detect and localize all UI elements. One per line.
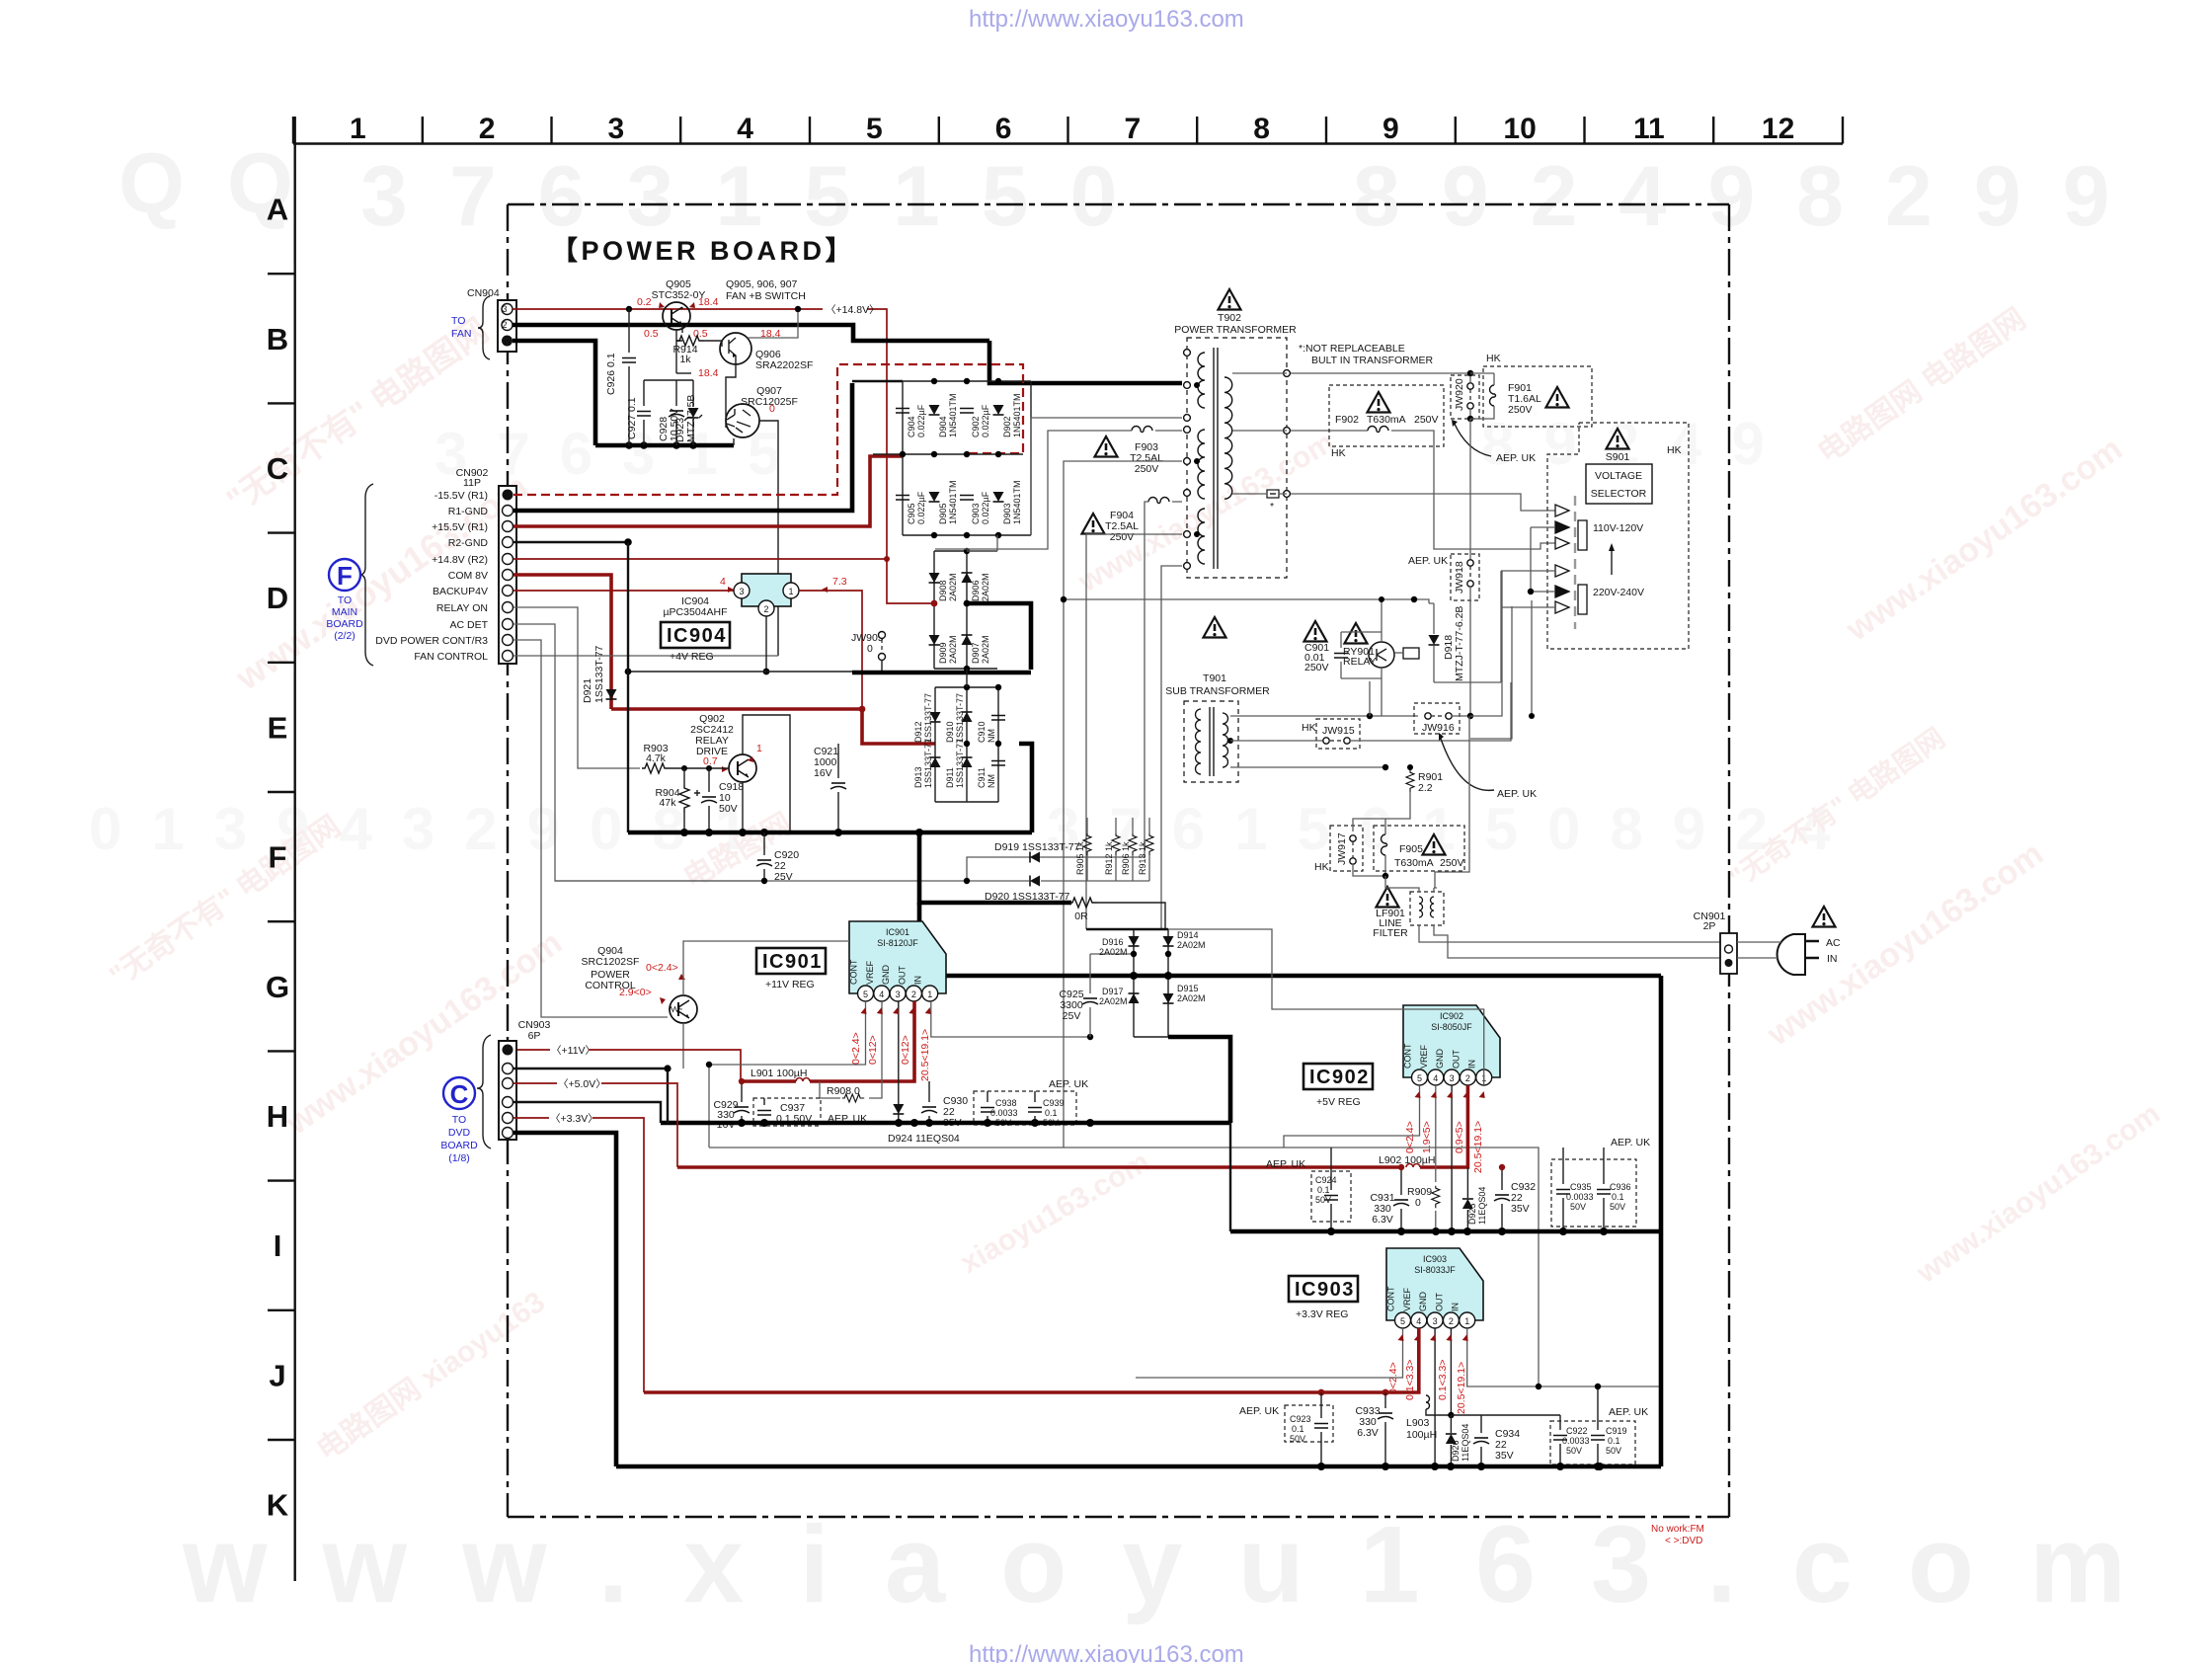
wire +3.3V red: [513, 1117, 549, 1119]
wire R2-GND vertical: [627, 542, 629, 832]
svg-text:20.5<19.1>: 20.5<19.1>: [1472, 1121, 1484, 1173]
svg-text:JW915: JW915: [1322, 725, 1355, 737]
svg-text:SI-8033JF: SI-8033JF: [1414, 1265, 1456, 1275]
svg-text:2A02M: 2A02M: [1099, 996, 1128, 1006]
diode D915: [1163, 993, 1174, 1003]
svg-text:RELAY: RELAY: [1343, 656, 1377, 668]
transistor Q906: [720, 333, 751, 364]
svg-text:6P: 6P: [528, 1030, 541, 1042]
svg-text:2A02M: 2A02M: [948, 573, 958, 601]
wire sec mid to F902: [1232, 431, 1555, 549]
svg-text:1N5401TM: 1N5401TM: [1012, 480, 1022, 524]
svg-text:1N5401TM: 1N5401TM: [948, 393, 958, 437]
svg-text:H: H: [267, 1099, 288, 1134]
bridge D916/D914/D917/D915: [1090, 954, 1134, 988]
wire bridge to T902 tap: [1031, 418, 1182, 535]
svg-text:R905 1k: R905 1k: [1075, 841, 1085, 875]
svg-text:20.5<19.1>: 20.5<19.1>: [1456, 1362, 1467, 1414]
svg-text:HK: HK: [1667, 444, 1682, 456]
svg-text:IC901: IC901: [886, 927, 909, 937]
red pin arrows IC901: [861, 1007, 867, 1014]
wire q906-q907: [726, 364, 736, 406]
jumper JW920: [1451, 375, 1479, 419]
red pin values IC901: [850, 1029, 931, 1081]
diode D925: [1462, 1199, 1473, 1209]
ruler top ticks: [293, 117, 1843, 144]
svg-text:376315: 376315: [434, 421, 810, 487]
svg-text:JW918: JW918: [1454, 561, 1465, 594]
svg-text:POWER TRANSFORMER: POWER TRANSFORMER: [1174, 324, 1297, 336]
svg-text:50V: 50V: [1570, 1202, 1586, 1212]
wire thick r1gnd to bridge: [852, 380, 903, 382]
wire selector to jw916: [1470, 600, 1532, 739]
connector CN902: [499, 486, 516, 664]
svg-text:1k: 1k: [679, 354, 691, 365]
capacitor C920: [763, 832, 765, 881]
wire bridge2 top to fuse area: [967, 535, 997, 551]
svg-text:100µH: 100µH: [1406, 1429, 1437, 1441]
svg-text:TO: TO: [338, 594, 352, 606]
svg-text:2: 2: [1465, 1073, 1470, 1083]
svg-text:250V: 250V: [1440, 857, 1464, 869]
svg-text:1N5401TM: 1N5401TM: [1012, 393, 1022, 437]
svg-text:D925: D925: [1467, 1203, 1477, 1225]
capacitor C931: [1393, 1200, 1409, 1206]
svg-text:5: 5: [1417, 1073, 1422, 1083]
wire IC902 IN feed: [1168, 929, 1484, 1085]
watermark faint digits top: [118, 136, 2151, 244]
svg-text:7.3: 7.3: [832, 576, 847, 588]
diode D907: [962, 635, 973, 645]
wire FAN CONTROL: [513, 655, 778, 657]
red pin arrows IC903: [1398, 1334, 1404, 1341]
svg-text:R1-GND: R1-GND: [448, 506, 489, 517]
wire thick C911 frame: [1019, 744, 1032, 832]
fuse F902: [1368, 427, 1388, 433]
svg-text:3: 3: [1450, 1073, 1455, 1083]
svg-text:D912: D912: [913, 721, 923, 743]
svg-text:C919: C919: [1606, 1426, 1627, 1436]
svg-text:0<12>: 0<12>: [867, 1035, 879, 1065]
svg-text:6: 6: [995, 113, 1012, 145]
svg-text:3: 3: [1433, 1316, 1438, 1326]
svg-text:FAN CONTROL: FAN CONTROL: [414, 651, 488, 663]
svg-text:0.1: 0.1: [1317, 1185, 1330, 1195]
svg-text:IC901: IC901: [762, 951, 823, 973]
thermal link *: [1267, 490, 1279, 498]
ruler top line: [293, 142, 1843, 144]
wire LF901 to CN901: [1385, 876, 1437, 892]
svg-text:250V: 250V: [1304, 662, 1329, 673]
svg-text:250V: 250V: [1135, 463, 1159, 475]
regulator IC903: [1386, 1248, 1483, 1320]
wire IC904 out red: [799, 591, 862, 709]
svg-text:89249: 89249: [1481, 411, 1794, 477]
svg-text:D909: D909: [938, 642, 948, 664]
wire bus y680: [628, 671, 895, 673]
wire pin2 OUT: [1450, 1328, 1452, 1415]
bridge2 rails: [934, 551, 997, 669]
svg-text:0.1<3.3>: 0.1<3.3>: [1437, 1360, 1449, 1400]
wire +11V red: [513, 1049, 550, 1051]
wire bridge3 top link: [966, 669, 968, 687]
svg-text:2: 2: [911, 990, 916, 999]
capacitor C932: [1494, 1195, 1510, 1201]
svg-text:CN904: CN904: [467, 287, 500, 299]
red pin arrows IC902: [1415, 1091, 1421, 1098]
svg-text:(2/2): (2/2): [334, 630, 355, 642]
svg-text:C926 0.1: C926 0.1: [605, 353, 617, 395]
svg-text:A: A: [267, 193, 288, 227]
svg-text:7: 7: [1125, 113, 1142, 145]
svg-text:AEP. UK: AEP. UK: [1266, 1158, 1305, 1170]
wire pin2 gnd: [513, 1069, 668, 1123]
diode D924: [893, 1104, 904, 1114]
svg-text:AEP. UK: AEP. UK: [1496, 452, 1536, 464]
svg-text:D915: D915: [1177, 984, 1199, 993]
svg-text:MAIN: MAIN: [332, 606, 357, 618]
regulator IC901: [849, 921, 946, 993]
svg-text:2.9<0>: 2.9<0>: [619, 987, 652, 998]
svg-text:AC: AC: [1826, 937, 1841, 949]
svg-text:R913 1k: R913 1k: [1138, 841, 1147, 875]
svg-text:0.5: 0.5: [644, 328, 659, 340]
ruler column numbers: [350, 113, 1794, 145]
svg-text:R908 0: R908 0: [827, 1085, 860, 1097]
svg-text:D902: D902: [1002, 416, 1012, 437]
resistor R908: [842, 1094, 864, 1102]
svg-text:0.022µF: 0.022µF: [916, 491, 926, 524]
svg-text:C922: C922: [1566, 1426, 1588, 1436]
svg-text:0<2.4>: 0<2.4>: [850, 1032, 862, 1065]
svg-text:2: 2: [502, 320, 507, 330]
ruler left line: [294, 117, 296, 1581]
svg-text:2: 2: [1449, 1316, 1454, 1326]
svg-text:IC902: IC902: [1440, 1011, 1463, 1021]
svg-text:16V: 16V: [814, 767, 832, 779]
diode D908: [929, 573, 940, 583]
svg-text:DVD POWER CONT/R3: DVD POWER CONT/R3: [375, 635, 488, 647]
svg-text:HK: HK: [1331, 447, 1346, 459]
wire COM 8V thick red: [513, 575, 611, 688]
svg-text:220V-240V: 220V-240V: [1593, 587, 1644, 598]
svg-text:BOARD: BOARD: [326, 618, 363, 630]
label TO MAIN BOARD: [326, 594, 363, 642]
wire sec bottom to selector: [1232, 494, 1555, 511]
wire +5.0V red: [513, 1082, 557, 1084]
op-amp IC904 regulator: [742, 574, 791, 606]
svg-text:3: 3: [608, 113, 625, 145]
svg-text:OUT: OUT: [1451, 1050, 1461, 1069]
transistor Q907: [726, 404, 759, 437]
svg-text:25V: 25V: [1063, 1010, 1081, 1022]
svg-text:OUT: OUT: [1434, 1293, 1444, 1312]
wire BACKUP4V red: [513, 590, 735, 592]
svg-text:D911: D911: [945, 767, 955, 788]
svg-text:AEP. UK: AEP. UK: [1049, 1078, 1088, 1090]
svg-text:E: E: [268, 710, 288, 745]
svg-text:http://www.xiaoyu163.com: http://www.xiaoyu163.com: [969, 6, 1244, 33]
svg-text:4: 4: [879, 990, 884, 999]
svg-text:+5V REG: +5V REG: [1316, 1096, 1361, 1108]
svg-text:JW916: JW916: [1422, 722, 1455, 734]
svg-text:IN: IN: [913, 976, 923, 985]
wire jw916 down to line filter: [1435, 716, 1469, 888]
svg-text:D: D: [267, 581, 288, 615]
svg-text:*: *: [1270, 501, 1274, 513]
svg-text:12: 12: [1762, 113, 1794, 145]
svg-text:TO: TO: [452, 1114, 466, 1126]
svg-text:1: 1: [1464, 1316, 1469, 1326]
svg-text:250V: 250V: [1110, 531, 1135, 543]
wire AC DET: [513, 624, 764, 881]
wire q906 collector: [748, 312, 798, 338]
ruler row letters: [266, 193, 289, 1523]
jumper JW917: [1330, 826, 1363, 871]
svg-text:11P: 11P: [463, 477, 481, 489]
svg-text:T901: T901: [1203, 673, 1226, 684]
svg-text:4: 4: [1433, 1073, 1438, 1083]
ruler left ticks: [268, 274, 295, 1440]
svg-text:VREF: VREF: [1402, 1287, 1412, 1311]
svg-text:JW917: JW917: [1336, 832, 1348, 865]
ac plug: [1777, 934, 1805, 975]
svg-text:C939: C939: [1043, 1098, 1065, 1108]
svg-text:µPC3504AHF: µPC3504AHF: [664, 606, 728, 618]
svg-text:C936: C936: [1610, 1182, 1631, 1192]
wire q905 emitter chain: [676, 372, 691, 374]
svg-text:C904: C904: [907, 416, 916, 437]
svg-text:0.1: 0.1: [1292, 1424, 1304, 1434]
svg-text:OUT: OUT: [897, 966, 907, 986]
wire pin5 CONT: [1284, 1085, 1420, 1148]
svg-text:AEP. UK: AEP. UK: [1497, 788, 1537, 800]
svg-text:10: 10: [1503, 113, 1536, 145]
svg-text:+15.5V (R1): +15.5V (R1): [432, 521, 488, 533]
transistor Q905: [663, 302, 690, 330]
svg-text:+4V REG: +4V REG: [670, 651, 714, 663]
svg-text:D905: D905: [938, 503, 948, 524]
svg-text:F902: F902: [1335, 414, 1359, 426]
svg-text:*:NOT REPLACEABLE: *:NOT REPLACEABLE: [1299, 343, 1405, 355]
wire -15.5V dashed red: [513, 364, 1023, 495]
svg-text:11EQS04: 11EQS04: [1477, 1187, 1487, 1225]
svg-text:C938: C938: [995, 1098, 1017, 1108]
svg-text:1: 1: [927, 990, 932, 999]
watermark faint bottom url: [182, 1504, 2181, 1625]
diode D905: [929, 492, 940, 502]
wire R1-GND thick: [513, 383, 852, 511]
svg-text:+14.8V (R2): +14.8V (R2): [432, 554, 488, 566]
relay contact: [1403, 648, 1419, 659]
svg-text:C: C: [450, 1079, 469, 1109]
svg-text:1: 1: [756, 743, 762, 754]
svg-text:C924: C924: [1315, 1175, 1337, 1185]
svg-text:〈+3.3V〉: 〈+3.3V〉: [550, 1113, 598, 1125]
watermark pink rotated texts: [104, 302, 2166, 1466]
capacitor C911: [991, 761, 1005, 766]
wire pin4 R908: [869, 1001, 882, 1098]
svg-text:R2-GND: R2-GND: [448, 537, 489, 549]
svg-text:NM: NM: [987, 729, 996, 743]
svg-text:20.5<19.1>: 20.5<19.1>: [919, 1029, 931, 1081]
diode D921 on red: [609, 688, 613, 709]
wire q905 base: [676, 330, 682, 373]
svg-text:250V: 250V: [1508, 404, 1533, 416]
GND bus y1247: [1230, 1229, 1661, 1234]
svg-text:2: 2: [763, 604, 768, 614]
svg-text:D913: D913: [913, 766, 923, 788]
wire IC904 pin2: [765, 616, 767, 672]
svg-text:4.7k: 4.7k: [646, 752, 667, 764]
svg-text:G: G: [266, 970, 289, 1004]
power board dash-dot border: [508, 204, 1729, 1517]
wire pin1 IN: [1467, 1328, 1661, 1386]
resistor R903: [642, 763, 670, 773]
wire to sub circuits long verticals: [1064, 461, 1182, 1148]
watermark faint digits middle: [89, 411, 1860, 862]
capacitor C921: [837, 744, 839, 832]
svg-text:1SS133T-77: 1SS133T-77: [593, 645, 605, 703]
svg-text:1SS133T-77: 1SS133T-77: [955, 739, 965, 788]
svg-text:VREF: VREF: [1419, 1044, 1429, 1069]
svg-text:D919 1SS133T-77: D919 1SS133T-77: [994, 841, 1080, 853]
svg-text:Q905, 906, 907: Q905, 906, 907: [726, 278, 798, 290]
svg-text:D904: D904: [938, 416, 948, 437]
svg-text:376315150: 376315150: [360, 149, 1158, 244]
resistor R904: [679, 785, 689, 813]
GND bus y1137: [661, 1121, 1230, 1126]
wire pin4 gnd thick: [513, 1102, 661, 1123]
relay RY901: [1369, 642, 1394, 668]
resistor R901: [1406, 770, 1414, 792]
svg-text:D906: D906: [971, 580, 981, 601]
wire +14.8V red: [513, 308, 823, 310]
brace CN903: [477, 1035, 491, 1148]
fuse F901: [1490, 385, 1496, 406]
T902 core: [1214, 348, 1218, 569]
svg-text:IN: IN: [1467, 1060, 1477, 1069]
svg-text:GND: GND: [1435, 1049, 1445, 1069]
svg-text:2P: 2P: [1703, 920, 1716, 932]
bottom GND bus: [616, 1465, 1661, 1469]
svg-text:〈+14.8V〉: 〈+14.8V〉: [826, 304, 880, 316]
svg-text:DVD: DVD: [448, 1127, 471, 1139]
svg-text:11EQS04: 11EQS04: [1461, 1424, 1470, 1462]
svg-text:GND: GND: [1418, 1292, 1428, 1312]
svg-text:2: 2: [479, 113, 496, 145]
svg-text:0.5: 0.5: [693, 328, 708, 340]
svg-text:MTZJ-T-77-6.2B: MTZJ-T-77-6.2B: [1454, 606, 1465, 681]
diode D906: [962, 573, 973, 583]
wire thick +20V rail: [919, 903, 1661, 976]
svg-text:F: F: [337, 561, 353, 591]
svg-text:3: 3: [502, 304, 507, 314]
wire pin5 CONT: [1136, 1328, 1403, 1378]
svg-text:D926: D926: [1451, 1440, 1461, 1462]
wire pin3 GND: [1451, 1085, 1453, 1231]
wire q907 out: [759, 421, 778, 656]
svg-text:0.7: 0.7: [703, 755, 718, 767]
capacitor C904: [896, 409, 909, 414]
svg-text:1: 1: [350, 113, 366, 145]
svg-text:HK: HK: [1314, 861, 1329, 873]
svg-text:11: 11: [1633, 113, 1665, 145]
wire thick D907 to bus: [967, 603, 1031, 670]
wire +15.5V thick red: [513, 456, 903, 526]
ref C circle: [443, 1077, 475, 1109]
svg-text:CONT: CONT: [849, 959, 859, 985]
svg-text:IN: IN: [1451, 1303, 1461, 1311]
svg-text:1.9<5>: 1.9<5>: [1421, 1121, 1433, 1153]
svg-text:0.0033: 0.0033: [1562, 1436, 1590, 1446]
node dot: [626, 306, 632, 312]
svg-text:AEP. UK: AEP. UK: [1609, 1406, 1648, 1418]
svg-text:6.3V: 6.3V: [1372, 1214, 1393, 1226]
diode D917: [1129, 993, 1140, 1003]
svg-text:F905: F905: [1399, 843, 1423, 855]
svg-text:AEP. UK: AEP. UK: [1239, 1405, 1279, 1417]
svg-text:50V: 50V: [1566, 1446, 1582, 1456]
svg-text:R906 1k: R906 1k: [1121, 841, 1131, 875]
diode D914: [1163, 936, 1174, 946]
capacitor C902: [960, 409, 974, 414]
svg-text:1N5401TM: 1N5401TM: [948, 480, 958, 524]
svg-text:Q: Q: [118, 136, 185, 231]
wire q904 emitter: [682, 1023, 684, 1069]
wire T901 sec wires: [1230, 716, 1418, 767]
svg-text:L903: L903: [1406, 1417, 1430, 1429]
svg-text:SI-8050JF: SI-8050JF: [1431, 1022, 1472, 1032]
diode D904: [929, 405, 940, 415]
wires into selector: [1501, 527, 1555, 607]
svg-text:3: 3: [739, 587, 744, 596]
svg-text:C911: C911: [977, 767, 987, 788]
svg-text:50V: 50V: [1606, 1446, 1621, 1456]
svg-text:47k: 47k: [660, 797, 677, 809]
svg-text:BACKUP4V: BACKUP4V: [433, 586, 488, 597]
svg-text:T902: T902: [1218, 312, 1241, 324]
svg-text:5: 5: [866, 113, 883, 145]
svg-text:2A02M: 2A02M: [1099, 947, 1128, 957]
wire com8v red to relay area: [611, 707, 861, 711]
svg-text:D924 11EQS04: D924 11EQS04: [888, 1133, 960, 1145]
svg-text:SUB TRANSFORMER: SUB TRANSFORMER: [1165, 685, 1270, 697]
fuse F905: [1374, 826, 1464, 871]
svg-text:0.0033: 0.0033: [1566, 1192, 1594, 1202]
svg-text:JW920: JW920: [1454, 378, 1465, 411]
svg-text:CONT: CONT: [1386, 1286, 1396, 1311]
wire Q902 emitter/collector: [743, 715, 790, 832]
ref F circle: [329, 559, 360, 591]
wire sec top: [1232, 372, 1287, 374]
svg-text:8: 8: [1253, 113, 1270, 145]
svg-text:2A02M: 2A02M: [981, 573, 990, 601]
capacitor C910: [991, 716, 1005, 721]
F902 dashed box: [1329, 385, 1444, 446]
svg-text:4: 4: [737, 113, 753, 145]
zener D918: [1429, 635, 1440, 645]
bridge rails top/mid/bottom: [873, 381, 1031, 535]
wire pin4 R909: [1435, 1085, 1437, 1182]
capacitor C933: [1378, 1413, 1393, 1419]
T902 primary coils: [1198, 353, 1205, 408]
svg-text:4: 4: [720, 576, 726, 588]
capacitor C934: [1473, 1438, 1489, 1444]
svg-text:1: 1: [788, 587, 793, 596]
svg-text:0.022µF: 0.022µF: [981, 491, 990, 524]
svg-text:VREF: VREF: [865, 960, 875, 985]
